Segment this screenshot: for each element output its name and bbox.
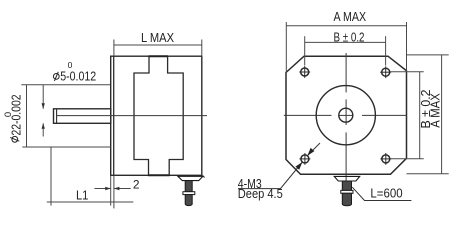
shaft (side view) [54, 109, 111, 124]
cable strain relief (front view) [334, 176, 360, 181]
pilot circle (phi22) [316, 86, 375, 145]
horizontal centerline (front view) [284, 114, 407, 116]
cable strain relief (side view) [178, 176, 203, 180]
dimension phi22-0.002 [22, 146, 110, 148]
svg-text:Deep 4.5: Deep 4.5 [238, 186, 283, 201]
svg-text:A MAX: A MAX [334, 9, 367, 24]
svg-text:L1: L1 [76, 187, 89, 202]
cable upper (side view) [185, 181, 192, 192]
dimension A MAX (top) [286, 22, 406, 73]
dimension 2 (boss width) [94, 176, 130, 209]
dimension L1 [47, 147, 134, 206]
front face outline with chamfered corners [286, 56, 407, 174]
cable ferrule (front view) [341, 190, 353, 193]
leader L=600 [352, 187, 411, 200]
dimension phi5-0.012 [21, 85, 110, 137]
mounting hole top-left [299, 66, 310, 78]
svg-text:A MAX: A MAX [428, 93, 443, 128]
mounting hole bottom-left [299, 153, 310, 165]
stator lamination stepped profile (right half) [168, 57, 184, 176]
cable lower (side view) [185, 195, 192, 206]
cable lower (front view) [342, 193, 351, 206]
svg-text:L=600: L=600 [370, 186, 402, 201]
shaft circle (phi5) [339, 108, 353, 122]
mounting hole bottom-right [380, 153, 391, 165]
dimension B +/-0.2 (right, vertical) [390, 72, 424, 159]
leader 4-M3 Deep 4.5 [238, 162, 302, 189]
cable ferrule (side view) [183, 192, 195, 195]
front mounting plate line (side view) [113, 56, 115, 175]
centerline (side view horizontal axis) [57, 115, 208, 117]
vertical centerline (front view) [345, 53, 347, 206]
motor body outline (side view) [111, 56, 202, 175]
svg-text:22-0.002: 22-0.002 [9, 95, 24, 136]
svg-text:L MAX: L MAX [141, 30, 174, 45]
mounting hole top-right [380, 66, 391, 78]
stator lamination stepped profile (left half) [134, 57, 149, 176]
dimension L MAX [114, 40, 202, 57]
body bottom-right corner slant [202, 175, 205, 177]
lamination tab top overdraw [149, 55, 168, 57]
svg-text:5-0.012: 5-0.012 [60, 68, 96, 83]
lamination tab bottom overdraw [148, 174, 170, 176]
svg-text:2: 2 [133, 178, 140, 192]
dimension B +/-0.2 (top) [305, 36, 386, 65]
dimension A MAX (right, vertical) [407, 55, 449, 174]
svg-text:B ± 0.2: B ± 0.2 [334, 30, 365, 45]
cable upper (front view) [342, 181, 351, 190]
shaft chamfer line [56, 109, 58, 124]
